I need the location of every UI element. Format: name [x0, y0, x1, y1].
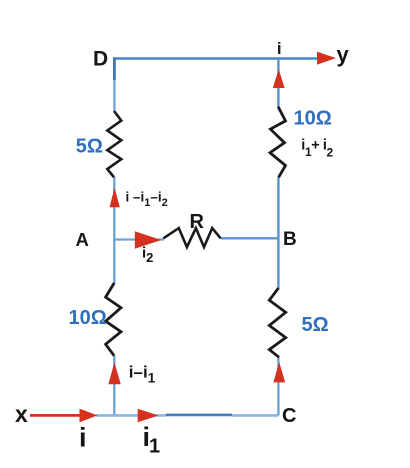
wire: left vertical light segment to 5-ohm top [113, 80, 115, 111]
svg-text:i: i [79, 423, 87, 453]
arrow: current i entering at x (bottom left, red tail) [30, 414, 80, 417]
wire: bottom rail to node C [232, 414, 278, 417]
resistor R (branch A-B) [163, 228, 220, 247]
arrow: current i2 into resistor R [135, 231, 161, 249]
wire: left vertical D to 5-ohm top [113, 57, 116, 80]
svg-text:x: x [15, 401, 28, 427]
svg-text:B: B [283, 229, 297, 250]
arrow: output y (top right) [317, 52, 336, 65]
wire: middle A-B rail left part [114, 238, 164, 240]
svg-text:R: R [190, 211, 205, 233]
wire: right vertical top rail to 10-ohm top [277, 59, 279, 108]
resistor 5-ohm (branch C-B) [269, 288, 285, 357]
arrow: current i-i1-i2 up the left branch [110, 188, 120, 208]
wire: top D-y rail [113, 57, 317, 60]
resistor 5-ohm (branch D-A) [107, 111, 121, 177]
wire: middle A-B rail right part [221, 237, 279, 239]
wire: left vertical 5-ohm bottom through node A to 10-ohm top [113, 177, 115, 284]
resistor 10-ohm (branch B-y) [270, 107, 286, 178]
svg-text:10Ω: 10Ω [294, 108, 332, 130]
svg-text:A: A [76, 229, 89, 250]
arrow: current up the right B-y branch [273, 69, 285, 88]
wire: right vertical 10-ohm bottom to node B to 5-ohm top [277, 177, 279, 289]
svg-text:10Ω: 10Ω [69, 307, 107, 329]
wire: bottom rail mid segment [166, 414, 232, 417]
arrow: current i-i1 up the left branch [108, 362, 120, 384]
svg-text:y: y [337, 42, 350, 67]
svg-text:5Ω: 5Ω [302, 314, 329, 336]
arrow: current up the right C-B branch [273, 362, 285, 382]
svg-text:5Ω: 5Ω [76, 135, 103, 157]
svg-text:i: i [277, 39, 282, 58]
wire: right vertical 5-ohm bottom to node C [277, 357, 279, 415]
resistor 10-ohm (branch A-x) [106, 283, 121, 356]
wire: bottom rail junction to node C [96, 414, 166, 417]
wire: left vertical 10-ohm bottom to bottom rail [113, 356, 115, 415]
arrow: current i1 on bottom rail [138, 409, 159, 423]
svg-text:D: D [93, 48, 108, 71]
svg-text:C: C [282, 405, 296, 427]
